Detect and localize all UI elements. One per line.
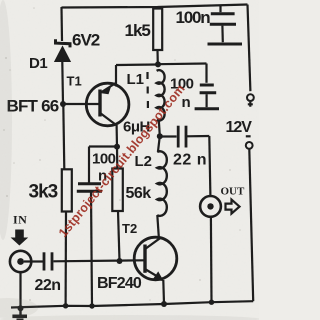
node: ground rail 3k3	[63, 303, 68, 308]
IN block arrow	[11, 230, 29, 246]
node: ground rail IN	[18, 305, 24, 311]
wire: node to 100n(right) branch	[158, 62, 207, 65]
wire: ground rail	[11, 301, 253, 307]
-12V terminal	[246, 136, 253, 149]
L1 core dashed line	[146, 72, 149, 108]
wire: right border bottom (minus terminal to rail)	[249, 149, 253, 301]
wire: T1 base wire	[63, 103, 99, 105]
wire: 3k3 bottom lead to ground rail	[64, 212, 67, 306]
wire: L1 bottom to 22n node	[159, 120, 160, 136]
node: T1 base / 3k3	[60, 101, 66, 107]
IN terminal	[10, 251, 31, 272]
capacitor 100n (top right, decoupling)	[208, 5, 243, 44]
node: ground rail 100n	[89, 303, 94, 308]
wire: collector rail T1 to 1k5/L1 node	[116, 63, 158, 66]
wire: node down to 56k top	[116, 147, 119, 169]
zener diode D1	[54, 39, 71, 62]
wire: node to 100n(mid) left branch	[89, 145, 117, 147]
ground	[12, 308, 27, 320]
wire: IN circle to 22n cap	[24, 260, 43, 262]
wire: IN circle down lead	[19, 273, 21, 309]
inductor L1	[157, 70, 165, 121]
wire: 56k bottom lead to T2 base node	[118, 211, 120, 261]
wire: left main vertical (top rail corner to zener)	[60, 7, 63, 41]
capacitor 22n (input coupling)	[44, 252, 52, 270]
OUT terminal	[200, 196, 221, 217]
wire: T1 bottom lead down to node	[115, 125, 118, 147]
resistor R 1k5	[153, 9, 162, 51]
wire: T1 top lead up	[115, 65, 117, 87]
node: 1k5 / L1 / collector	[155, 61, 161, 67]
wire: right border top to + terminal	[248, 5, 251, 92]
node: ground rail T2 emitter	[161, 301, 167, 307]
capacitor 100n (right mid, decoupling)	[195, 85, 219, 109]
capacitor 22n (output coupling)	[178, 126, 186, 148]
wire: 22n cap to T2 base (through 56k node)	[54, 260, 145, 261]
inductor L2	[157, 151, 167, 216]
resistor R 56k	[112, 169, 123, 212]
wire: 22n node to 22n cap	[160, 135, 177, 137]
wire: 100n(mid) bottom lead to ground rail	[91, 193, 92, 307]
wire: 22n node down to L2 top	[158, 136, 160, 152]
transistor T1 BFT66	[86, 83, 129, 126]
+12V terminal	[247, 94, 254, 107]
resistor R 3k3	[62, 169, 72, 211]
wire: top +12V rail	[62, 5, 248, 8]
node: L1-L2 / 22n out	[157, 133, 163, 139]
wire: 22n cap to OUT line	[187, 135, 210, 138]
capacitor 100n (left mid, emitter bypass)	[77, 184, 102, 191]
wire: base node down to 3k3 top	[63, 104, 64, 169]
node: 56k / T2 base	[117, 258, 123, 264]
wire: T2 emitter down to ground rail	[162, 280, 165, 304]
transistor T2 BF240	[134, 237, 177, 281]
OUT block arrow (outline)	[226, 200, 240, 214]
node: ground rail OUT	[209, 300, 214, 305]
wire: 1k5 bottom lead	[156, 50, 159, 64]
wire: zener anode down to base node	[61, 62, 64, 104]
wire: L2 bottom to T2 collector	[157, 215, 159, 237]
node: emitter T1 / 100n / 56k	[114, 144, 120, 150]
wire: OUT circle down to ground rail	[210, 217, 213, 302]
